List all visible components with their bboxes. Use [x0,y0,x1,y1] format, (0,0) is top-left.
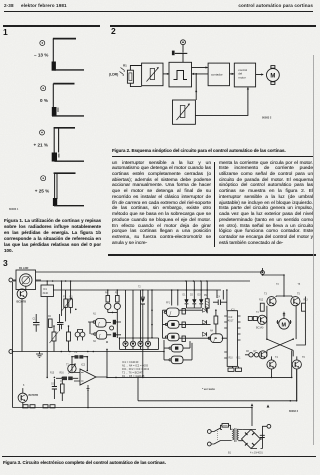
svg-text:R13: R13 [304,300,309,302]
svg-text:+ 21 %: + 21 % [34,143,48,148]
svg-text:R12: R12 [259,300,264,302]
svg-text:– 13 %: – 13 % [34,53,48,58]
svg-text:+ 25 %: + 25 % [35,188,49,193]
svg-text:M: M [270,73,275,79]
svg-text:M: M [282,322,287,328]
svg-text:3140: 3140 [43,292,49,295]
svg-text:T5: T5 [298,284,301,286]
svg-text:R1 LDR: R1 LDR [19,266,28,270]
svg-text:N4: N4 [210,331,214,333]
svg-text:4 x 1N4001: 4 x 1N4001 [250,452,263,455]
svg-text:D1 ... D5 = 1N4148: D1 ... D5 = 1N4148 [122,374,145,378]
svg-text:ʃ: ʃ [98,333,101,338]
svg-text:C1: C1 [33,319,37,321]
svg-text:N1: N1 [93,314,97,316]
svg-text:T4: T4 [256,312,259,314]
svg-text:IC3: IC3 [228,315,233,319]
svg-text:ʃ: ʃ [97,321,100,326]
svg-text:R2: R2 [48,316,52,318]
svg-text:contador: contador [211,73,223,77]
svg-text:T3: T3 [276,284,279,286]
svg-text:C4: C4 [217,297,221,299]
svg-text:ʃ: ʃ [169,311,172,316]
svg-text:N1 ... N4 = IC2 = 4093: N1 ... N4 = IC2 = 4093 [122,364,149,368]
svg-text:T3: T3 [264,293,267,296]
svg-text:R5: R5 [115,293,119,295]
svg-text:D1: D1 [183,295,187,297]
svg-text:FF1: FF1 [166,303,171,305]
svg-text:BC557B: BC557B [29,394,39,397]
svg-text:IC1: IC1 [43,288,48,291]
svg-text:C7: C7 [60,381,64,383]
svg-text:D3: D3 [198,295,202,297]
svg-text:IC2: IC2 [81,363,86,367]
svg-text:R1: R1 [123,64,127,68]
svg-text:R11: R11 [237,358,242,360]
svg-text:BC140: BC140 [256,327,264,330]
svg-text:0 %: 0 % [40,98,48,103]
svg-text:N2: N2 [93,341,97,343]
svg-text:80083 3: 80083 3 [289,410,299,413]
svg-text:T5: T5 [297,293,300,296]
svg-text:FF1 , FF2 = IC3 = 4013: FF1 , FF2 = IC3 = 4013 [122,367,150,371]
svg-text:motor: motor [238,75,245,79]
svg-text:T2: T2 [138,287,141,289]
svg-text:IC1 = CA3130: IC1 = CA3130 [122,360,139,364]
svg-text:T4: T4 [275,356,278,359]
svg-text:R10: R10 [229,358,234,360]
svg-text:R15: R15 [50,373,55,375]
svg-text:D2: D2 [190,295,194,297]
svg-text:P2: P2 [75,352,79,354]
svg-text:B1: B1 [228,452,232,455]
svg-text:T6: T6 [302,356,305,359]
svg-text:ʃ: ʃ [213,337,216,342]
svg-text:T2 ... T6 = BC547: T2 ... T6 = BC547 [122,371,143,375]
svg-text:* ver texto: * ver texto [202,387,215,391]
svg-text:R3: R3 [70,297,74,299]
svg-text:4017: 4017 [228,320,234,323]
svg-text:8: 8 [23,385,25,387]
svg-text:(LDR): (LDR) [109,73,118,77]
svg-text:D6: D6 [246,351,250,353]
svg-text:R16: R16 [60,373,65,375]
svg-text:BC547B: BC547B [17,301,27,304]
svg-text:80083 2: 80083 2 [262,116,272,120]
